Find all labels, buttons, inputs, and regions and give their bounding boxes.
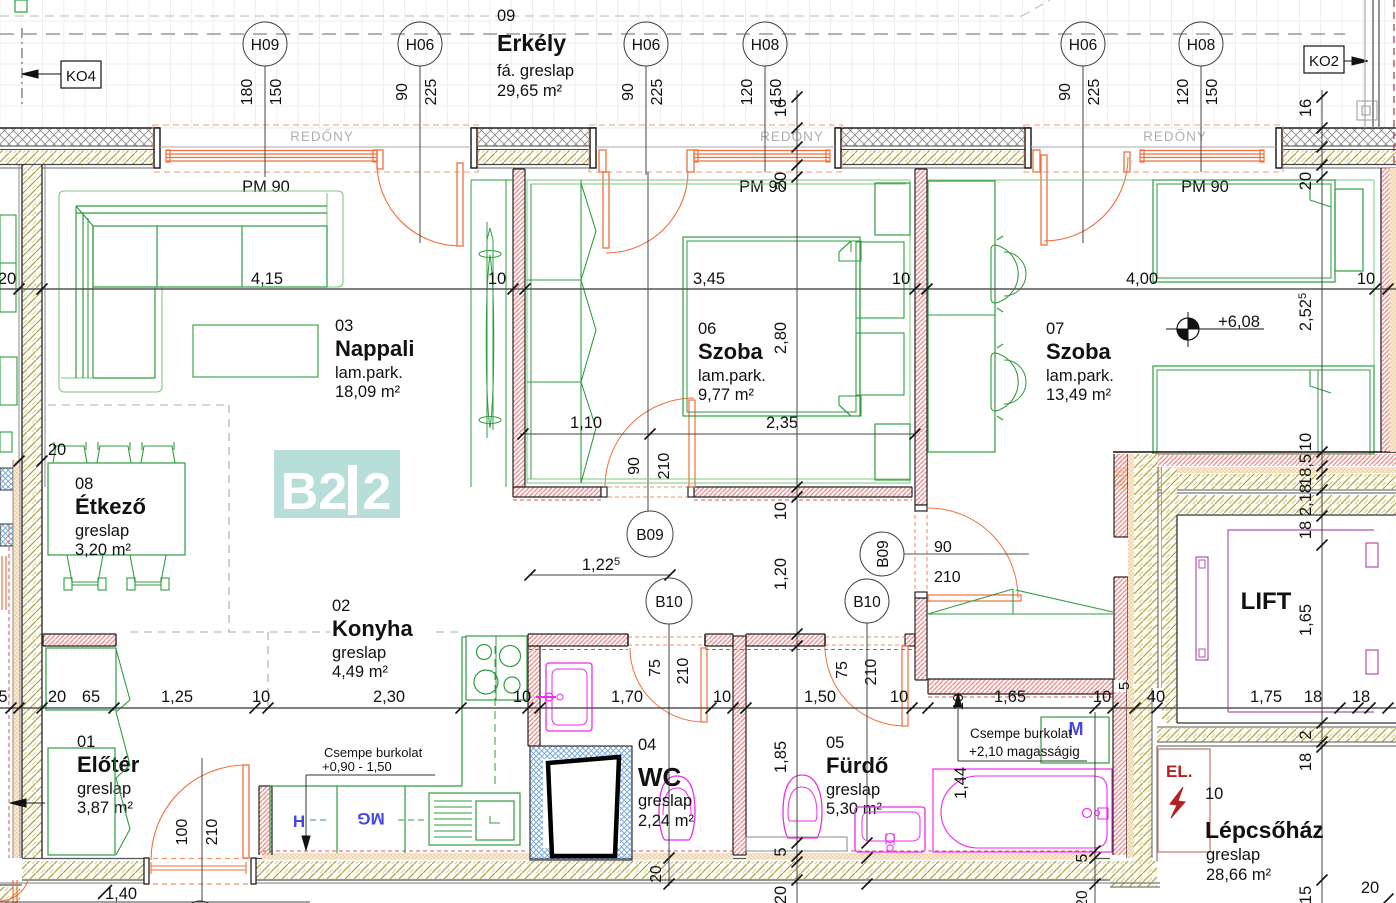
bath niche right dim line — [1094, 712, 1096, 903]
entrance door opening — [144, 858, 256, 860]
bottom exterior wall — [22, 861, 144, 879]
kitchen lower counter — [270, 785, 462, 787]
kitchen dashed zone lines — [130, 631, 330, 633]
svg-text:20: 20 — [772, 886, 790, 903]
circle B09-2 — [860, 532, 904, 576]
svg-text:225: 225 — [649, 79, 666, 106]
svg-text:Lépcsőház: Lépcsőház — [1205, 817, 1324, 843]
svg-text:lam.park.: lam.park. — [698, 367, 766, 385]
svg-text:1,10: 1,10 — [570, 414, 602, 432]
svg-text:90: 90 — [394, 83, 411, 101]
svg-text:120: 120 — [1175, 79, 1192, 106]
sofa seats — [93, 226, 327, 287]
opening mark H08 — [1179, 22, 1223, 66]
svg-text:greslap: greslap — [638, 792, 692, 810]
svg-text:4,49 m²: 4,49 m² — [332, 663, 388, 681]
balcony door D2 leaf — [603, 172, 609, 248]
svg-text:3,87 m²: 3,87 m² — [77, 799, 133, 817]
bath washbasin — [855, 807, 925, 852]
svg-text:greslap: greslap — [826, 781, 880, 799]
svg-text:10: 10 — [950, 694, 967, 711]
door B10-WC leaf — [701, 648, 707, 722]
svg-text:09: 09 — [497, 7, 515, 25]
level marker +6,08 — [1177, 318, 1199, 340]
svg-text:3,45: 3,45 — [693, 270, 725, 288]
svg-text:10: 10 — [1205, 785, 1223, 803]
svg-text:4,15: 4,15 — [251, 270, 283, 288]
svg-text:Csempe burkolat: Csempe burkolat — [970, 726, 1072, 741]
door B09-1 leaf — [689, 400, 695, 487]
window W3 (Szoba 07) — [1024, 125, 1283, 172]
svg-text:16: 16 — [772, 99, 790, 117]
svg-text:10: 10 — [1093, 688, 1111, 706]
svg-text:Erkély: Erkély — [497, 30, 566, 56]
svg-text:5: 5 — [1074, 854, 1091, 863]
entrance door threshold — [151, 865, 246, 867]
svg-text:05: 05 — [826, 734, 844, 752]
svg-text:REDŐNY: REDŐNY — [760, 129, 824, 144]
svg-text:2,24 m²: 2,24 m² — [638, 812, 694, 830]
svg-text:18,09 m²: 18,09 m² — [335, 383, 401, 401]
room divider shelf — [470, 180, 472, 487]
marker KO2 — [1304, 46, 1344, 73]
svg-text:150: 150 — [268, 79, 285, 106]
door B10-bath swing — [825, 646, 905, 726]
svg-text:H06: H06 — [406, 37, 434, 54]
svg-text:20: 20 — [48, 441, 66, 459]
vertical dimension chain right x1322 — [1321, 90, 1323, 903]
svg-text:40: 40 — [1147, 688, 1165, 706]
svg-text:08: 08 — [75, 475, 93, 493]
plaster strip bathroom — [746, 853, 1095, 859]
svg-text:20: 20 — [0, 270, 16, 288]
svg-text:lam.park.: lam.park. — [335, 364, 403, 382]
section line KO4 target — [21, 28, 23, 108]
svg-text:10: 10 — [892, 270, 910, 288]
balcony tile grid — [0, 0, 1396, 128]
svg-text:PM 90: PM 90 — [242, 178, 290, 196]
svg-text:Szoba: Szoba — [1046, 339, 1112, 364]
svg-text:1,44: 1,44 — [952, 767, 970, 799]
dining chairs bottom — [67, 555, 103, 582]
svg-text:greslap: greslap — [75, 522, 129, 540]
balcony door D1 swing — [377, 163, 460, 246]
svg-text:210: 210 — [934, 569, 961, 586]
entry hanger zigzag — [116, 649, 130, 855]
wall R7 kitchen stub — [43, 634, 116, 646]
wall R5c bath top — [746, 634, 825, 646]
svg-text:Étkező: Étkező — [75, 494, 146, 519]
svg-text:WC: WC — [638, 762, 682, 792]
opening mark H06 — [624, 22, 668, 66]
watermark B2|2 — [274, 450, 400, 518]
svg-text:20: 20 — [648, 865, 665, 883]
svg-text:20: 20 — [1361, 879, 1379, 897]
kitchen sink unit — [429, 793, 520, 845]
szoba07 bed 1 — [1153, 180, 1335, 282]
lightning bolt — [1170, 787, 1185, 818]
svg-text:+2,10 magasságig: +2,10 magasságig — [969, 744, 1080, 759]
svg-text:16: 16 — [1297, 99, 1315, 117]
door B09-1 swing — [605, 398, 694, 487]
szoba06 wardrobe — [580, 180, 582, 483]
svg-text:90: 90 — [934, 539, 952, 556]
svg-text:H09: H09 — [251, 37, 279, 54]
wall R9 bath top right — [915, 598, 927, 680]
glass facade right — [1364, 0, 1366, 128]
svg-text:+0,90 - 1,50: +0,90 - 1,50 — [322, 759, 392, 774]
svg-text:10: 10 — [890, 688, 908, 706]
szoba06 nightstands — [856, 242, 904, 318]
svg-text:1,40: 1,40 — [105, 885, 137, 903]
svg-text:REDŐNY: REDŐNY — [1143, 129, 1207, 144]
szoba07 bed 2 — [1153, 366, 1374, 454]
svg-text:10: 10 — [772, 502, 790, 520]
svg-text:9,77 m²: 9,77 m² — [698, 386, 754, 404]
svg-text:20: 20 — [1297, 172, 1315, 190]
svg-text:2,18: 2,18 — [1297, 484, 1315, 516]
svg-text:H08: H08 — [751, 37, 779, 54]
wall R4 bathroom left — [733, 636, 746, 855]
entrance door leaf — [243, 765, 249, 858]
svg-text:10: 10 — [513, 688, 531, 706]
entry wardrobe — [46, 648, 116, 710]
svg-text:Fürdő: Fürdő — [826, 753, 888, 778]
szoba07 finish outline — [928, 179, 1374, 181]
stairwell EL box — [1158, 749, 1210, 852]
svg-text:10: 10 — [252, 688, 270, 706]
svg-text:90: 90 — [626, 457, 643, 475]
svg-text:225: 225 — [1086, 79, 1103, 106]
washing machine — [1041, 717, 1109, 763]
svg-text:2,30: 2,30 — [373, 688, 405, 706]
dimension line 1,10 / 2,35 — [520, 433, 916, 435]
svg-text:120: 120 — [739, 79, 756, 106]
exterior wall segment C — [835, 129, 1031, 146]
svg-text:5,30 m²: 5,30 m² — [826, 800, 882, 818]
door B09-2 swing — [928, 508, 1018, 598]
window W2 (Szoba 06) — [589, 125, 842, 172]
svg-text:5: 5 — [1116, 682, 1133, 690]
bottom right wall corner — [1110, 861, 1157, 887]
sofa outline — [59, 191, 343, 392]
svg-text:28,66 m²: 28,66 m² — [1206, 866, 1272, 884]
szoba07 chair 2 — [991, 353, 1018, 411]
bookshelf left wall — [0, 215, 16, 312]
bathroom right wall — [1113, 692, 1127, 855]
svg-text:03: 03 — [335, 317, 353, 335]
svg-text:90: 90 — [620, 83, 637, 101]
bath shower tray — [746, 837, 847, 851]
red dashed finish lines — [528, 649, 628, 651]
svg-text:10: 10 — [488, 270, 506, 288]
lift interior — [1196, 557, 1208, 660]
svg-text:20: 20 — [1074, 890, 1091, 903]
svg-text:+6,08: +6,08 — [1218, 313, 1260, 331]
right wall upper — [1382, 168, 1390, 452]
svg-text:H06: H06 — [1069, 37, 1097, 54]
szoba06 finish outline — [527, 180, 910, 483]
svg-text:10: 10 — [713, 688, 731, 706]
window W1 door jamb — [377, 150, 383, 169]
main horizontal dimension line lower — [0, 707, 1396, 709]
svg-text:10: 10 — [1297, 433, 1315, 451]
neighbor door left — [1, 556, 3, 610]
wall R3 Szoba06 right — [915, 169, 927, 505]
wall R6 kitchen right — [528, 646, 540, 746]
wall R2b corridor top — [694, 487, 912, 497]
svg-text:210: 210 — [204, 819, 221, 846]
door B09-2 leaf — [928, 595, 1021, 601]
door B09-2 (hall) opening — [914, 508, 916, 598]
kitchen center dashed line — [494, 646, 496, 786]
left exterior wall — [22, 165, 42, 858]
svg-text:10: 10 — [1357, 270, 1375, 288]
main horizontal dimension line upper — [0, 288, 1396, 290]
bath toilet — [783, 775, 822, 838]
bottom left corner wall — [0, 887, 20, 903]
left shaft blue — [0, 468, 13, 490]
svg-text:1,50: 1,50 — [804, 688, 836, 706]
kitchen counter right — [461, 637, 463, 786]
svg-text:greslap: greslap — [1206, 846, 1260, 864]
svg-text:18: 18 — [1297, 521, 1315, 539]
plaster strip kitchen — [262, 853, 530, 859]
svg-text:fá. greslap: fá. greslap — [497, 62, 574, 80]
entry-kitchen wall spur — [259, 786, 272, 855]
svg-text:5: 5 — [772, 847, 790, 856]
kitchen hob — [466, 636, 527, 700]
svg-text:4,00: 4,00 — [1126, 270, 1158, 288]
svg-text:B09: B09 — [636, 527, 664, 544]
svg-text:1,20: 1,20 — [772, 558, 790, 590]
svg-text:13,49 m²: 13,49 m² — [1046, 386, 1112, 404]
wall R2a corridor top — [513, 487, 601, 497]
svg-text:18: 18 — [1352, 688, 1370, 706]
vertical dimension chain left x797 — [796, 90, 798, 903]
circle B10-1 — [646, 578, 692, 624]
svg-text:H06: H06 — [632, 37, 660, 54]
svg-text:07: 07 — [1046, 320, 1064, 338]
dining table — [48, 463, 185, 555]
door B10-WC opening — [628, 636, 705, 638]
balcony door D2 jambs — [599, 150, 606, 172]
svg-text:02: 02 — [332, 597, 350, 615]
svg-text:Konyha: Konyha — [332, 616, 413, 641]
szoba06 cabinets right — [875, 183, 910, 235]
svg-text:75: 75 — [834, 661, 851, 679]
svg-text:Csempe burkolat: Csempe burkolat — [324, 745, 423, 760]
dining chairs top — [53, 446, 87, 463]
svg-text:KO2: KO2 — [1309, 53, 1339, 70]
svg-text:KO4: KO4 — [66, 68, 96, 85]
balcony door D2 swing — [606, 171, 688, 253]
svg-text:210: 210 — [656, 453, 673, 480]
svg-text:90: 90 — [1057, 83, 1074, 101]
svg-text:04: 04 — [638, 736, 656, 754]
svg-text:2: 2 — [363, 463, 392, 521]
opening mark H06 — [398, 22, 442, 66]
svg-text:20: 20 — [772, 172, 790, 190]
wall R5d bath top right — [905, 634, 915, 646]
svg-text:75: 75 — [647, 659, 664, 677]
wall R1 Szoba06 left — [513, 169, 525, 487]
svg-text:20: 20 — [48, 688, 66, 706]
svg-text:2: 2 — [1297, 730, 1315, 739]
circle B10-2 — [845, 579, 889, 623]
window W1 (Nappali) — [153, 125, 478, 172]
door B09-1 (Nappali-hall) opening — [601, 486, 694, 488]
svg-text:Szoba: Szoba — [698, 339, 764, 364]
sofa backrest — [76, 205, 327, 207]
svg-text:150: 150 — [1204, 79, 1221, 106]
svg-text:1,65: 1,65 — [994, 688, 1026, 706]
svg-text:REDŐNY: REDŐNY — [290, 129, 354, 144]
svg-text:EL.: EL. — [1166, 762, 1192, 781]
svg-text:B10: B10 — [853, 594, 881, 611]
coffee table — [193, 325, 318, 377]
svg-text:greslap: greslap — [332, 644, 386, 662]
bottom partial circle — [184, 901, 216, 903]
szoba07 desk — [928, 181, 995, 452]
svg-text:MG: MG — [357, 809, 384, 828]
exterior wall segment B — [471, 129, 596, 146]
exterior wall segment A — [0, 129, 160, 146]
opening mark H08 — [743, 22, 787, 66]
svg-text:2,80: 2,80 — [772, 322, 790, 354]
balcony door D3 leaf — [1041, 155, 1047, 245]
door B10-bath opening — [825, 636, 905, 638]
plaster strip under WC — [632, 853, 733, 859]
left plaster strip — [13, 460, 20, 858]
dimension line 1,22 — [530, 574, 670, 576]
balcony door D3 swing — [1044, 157, 1128, 241]
entrance door swing — [151, 765, 246, 860]
svg-text:LIFT: LIFT — [1241, 588, 1292, 615]
szoba06 bed — [683, 237, 860, 416]
WC shaft door black — [548, 757, 619, 856]
bottom dim line 1,40 — [0, 901, 310, 903]
lift shaft walls — [1113, 451, 1396, 453]
wall R5b WC-bath top — [705, 634, 733, 646]
green vent top-left — [15, 0, 27, 12]
WC washbasin — [546, 663, 592, 731]
svg-text:1,65: 1,65 — [1297, 604, 1315, 636]
svg-text:1,75: 1,75 — [1250, 688, 1282, 706]
svg-text:1,25: 1,25 — [161, 688, 193, 706]
svg-text:06: 06 — [698, 320, 716, 338]
WC toilet — [659, 778, 695, 840]
balcony slab edge dashed lines — [0, 15, 1022, 17]
svg-text:B10: B10 — [655, 594, 683, 611]
svg-text:225: 225 — [423, 79, 440, 106]
svg-text:B09: B09 — [875, 540, 892, 568]
ticks bath leader — [862, 838, 873, 849]
svg-text:B2: B2 — [281, 463, 347, 521]
svg-text:65: 65 — [82, 688, 100, 706]
svg-text:Nappali: Nappali — [335, 336, 414, 361]
hanger rail — [928, 613, 1113, 615]
svg-text:18: 18 — [1297, 753, 1315, 771]
svg-text:1,70: 1,70 — [611, 688, 643, 706]
svg-text:210: 210 — [863, 659, 880, 686]
opening mark H09 — [243, 22, 287, 66]
svg-text:15: 15 — [1297, 886, 1315, 903]
svg-text:3,20 m²: 3,20 m² — [75, 541, 131, 559]
marker KO4 — [61, 61, 101, 88]
tall plant — [486, 255, 494, 428]
szoba07 chair 1 — [991, 250, 1011, 298]
svg-text:5: 5 — [0, 688, 8, 706]
svg-text:H08: H08 — [1187, 37, 1215, 54]
svg-text:18,5: 18,5 — [1297, 454, 1315, 486]
svg-text:greslap: greslap — [77, 780, 131, 798]
svg-text:18: 18 — [1304, 688, 1322, 706]
svg-text:lam.park.: lam.park. — [1046, 367, 1114, 385]
svg-text:PM 90: PM 90 — [1181, 178, 1229, 196]
svg-text:H: H — [293, 812, 305, 831]
balcony door D3 jambs — [1033, 150, 1040, 172]
svg-text:29,65 m²: 29,65 m² — [497, 82, 563, 100]
svg-text:2,35: 2,35 — [766, 414, 798, 432]
wall R5a WC top — [528, 634, 628, 646]
svg-text:180: 180 — [239, 79, 256, 106]
WC shaft blue wall — [530, 746, 632, 860]
door B10-bath leaf — [902, 646, 908, 726]
exterior wall segment D — [1276, 129, 1396, 146]
szoba06 pillows — [839, 241, 861, 261]
circle B09-1 — [627, 511, 673, 557]
svg-text:1,85: 1,85 — [772, 741, 790, 773]
svg-text:210: 210 — [675, 658, 692, 685]
svg-text:100: 100 — [174, 819, 191, 846]
section arrow left — [10, 802, 45, 804]
door B10-WC swing — [630, 648, 704, 722]
balcony door D1 leaf — [457, 163, 463, 246]
opening mark H06 — [1061, 22, 1105, 66]
bathtub — [933, 769, 1112, 852]
